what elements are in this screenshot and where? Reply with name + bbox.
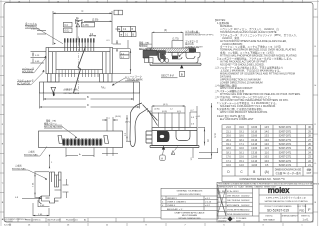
svg-text:(6.1): (6.1) xyxy=(163,104,168,106)
svg-text:12.0: 12.0 xyxy=(264,144,269,146)
svg-text:CHK: TSUNODA: CHK: TSUNODA xyxy=(227,199,241,202)
svg-text:(1.75): (1.75) xyxy=(173,39,179,41)
svg-text:14.16: 14.16 xyxy=(251,144,258,146)
svg-text:(3): (3) xyxy=(164,30,167,32)
svg-text:2002/04/02: 2002/04/02 xyxy=(218,221,227,223)
svg-text:(0.35): (0.35) xyxy=(147,111,152,113)
svg-text:WITHIN DIMENSIONS: WITHIN DIMENSIONS xyxy=(178,218,201,220)
svg-text:DIMENSIONS/PACKAGE: DIMENSIONS/PACKAGE xyxy=(275,169,302,172)
svg-text:「A」: 「A」 xyxy=(100,86,107,90)
svg-text:MUST REMAIN: MUST REMAIN xyxy=(182,214,198,217)
svg-text:EC No: 090901: EC No: 090901 xyxy=(227,191,239,193)
svg-text:± 0.15: ± 0.15 xyxy=(205,202,212,204)
svg-text:52437-2871: 52437-2871 xyxy=(279,136,292,138)
svg-text:19.1: 19.1 xyxy=(239,131,244,133)
svg-text:INSERTION DEPTH OF FPC: INSERTION DEPTH OF FPC xyxy=(185,34,214,36)
svg-text:2002/04/02: 2002/04/02 xyxy=(241,205,250,207)
svg-text:A4: A4 xyxy=(84,219,86,222)
svg-text:52437-2571: 52437-2571 xyxy=(279,148,292,150)
svg-text:CAD FILE 52437: CAD FILE 52437 xyxy=(47,219,61,222)
svg-text:18.6: 18.6 xyxy=(226,148,231,150)
svg-text:C: C xyxy=(82,9,84,13)
svg-text:SEE TABLE: SEE TABLE xyxy=(263,219,275,222)
svg-text:B: B xyxy=(181,73,183,77)
svg-text:52437-2671: 52437-2671 xyxy=(279,144,292,146)
svg-text:DRAFT WHERE APPLICABLE: DRAFT WHERE APPLICABLE xyxy=(175,211,205,214)
svg-text:12.66: 12.66 xyxy=(251,157,258,159)
svg-text:14.5: 14.5 xyxy=(264,127,269,129)
svg-text:CKT: CKT xyxy=(307,173,312,175)
svg-text:14.6: 14.6 xyxy=(239,165,244,167)
svg-text:15.66: 15.66 xyxy=(251,136,258,138)
svg-text:OVER 3 UNDER 6: OVER 3 UNDER 6 xyxy=(167,202,187,204)
svg-text:PRODUCT CUSTOMER DRAWING: PRODUCT CUSTOMER DRAWING xyxy=(265,205,293,208)
svg-text:FORM 013 REV 01: FORM 013 REV 01 xyxy=(25,220,40,222)
svg-text:± 0.1: ± 0.1 xyxy=(205,198,211,200)
svg-text:UNDER 3: UNDER 3 xyxy=(167,198,177,200)
svg-text:18.1: 18.1 xyxy=(226,152,231,154)
svg-text:SD-52437: SD-52437 xyxy=(5,221,13,223)
svg-text:G: G xyxy=(2,105,4,107)
svg-text:1.2: 1.2 xyxy=(170,108,173,110)
svg-text:11.5: 11.5 xyxy=(265,148,270,150)
svg-text:2002/04/02: 2002/04/02 xyxy=(241,200,250,202)
svg-text:17.1: 17.1 xyxy=(239,144,244,146)
svg-text:0.4±0.05: 0.4±0.05 xyxy=(31,29,40,31)
svg-text:M: M xyxy=(315,9,317,11)
svg-text:52437-2471: 52437-2471 xyxy=(279,152,292,154)
svg-text:GENERAL TOLERANCES: GENERAL TOLERANCES xyxy=(177,190,203,193)
svg-text:THIS DRAWING CONTAINS INFORMAT: THIS DRAWING CONTAINS INFORMATION THAT I… xyxy=(218,182,319,185)
svg-text:2002/04/02: 2002/04/02 xyxy=(241,209,250,211)
svg-text:15.6: 15.6 xyxy=(239,157,244,159)
svg-text:19.6: 19.6 xyxy=(239,127,244,129)
svg-text:15.1: 15.1 xyxy=(239,161,244,163)
svg-text:0: 0 xyxy=(196,118,197,120)
svg-text:52437-2271: 52437-2271 xyxy=(279,161,292,163)
svg-text:15.16: 15.16 xyxy=(251,140,258,142)
svg-text:SD-52437-019: SD-52437-019 xyxy=(267,209,289,213)
svg-text:13.0: 13.0 xyxy=(264,140,269,142)
svg-text:20.6: 20.6 xyxy=(226,136,231,138)
svg-text:DOC TYPE: DOC TYPE xyxy=(297,206,307,208)
svg-text:SMT/BK RA/LATCH CONN GOLD PLAT: SMT/BK RA/LATCH CONN GOLD PLATING xyxy=(264,200,307,203)
svg-text:S-T262: S-T262 xyxy=(4,224,12,226)
svg-text:OVER 6: OVER 6 xyxy=(167,205,176,207)
svg-text:APPR: MIAKITA: APPR: MIAKITA xyxy=(227,204,240,207)
svg-text:21.6: 21.6 xyxy=(226,127,231,129)
svg-text:A: A xyxy=(161,156,163,160)
svg-text:52437: 52437 xyxy=(236,221,241,223)
svg-text:molex: molex xyxy=(268,186,290,195)
svg-text:⊕: ⊕ xyxy=(120,34,122,37)
svg-text:11.0: 11.0 xyxy=(265,152,270,154)
svg-text:21.1: 21.1 xyxy=(226,131,231,133)
svg-text:D: D xyxy=(87,104,89,107)
svg-text:18.1: 18.1 xyxy=(239,140,244,142)
svg-text:17.6: 17.6 xyxy=(226,157,231,159)
svg-text:19.1: 19.1 xyxy=(226,144,231,146)
svg-text:(1.05): (1.05) xyxy=(83,25,89,27)
svg-text:13.16: 13.16 xyxy=(251,152,258,154)
svg-text:ANGULAR ± 3 °: ANGULAR ± 3 ° xyxy=(167,208,183,211)
svg-text:14.0: 14.0 xyxy=(264,131,269,133)
svg-text:(UNLESS SPECIFIED): (UNLESS SPECIFIED) xyxy=(178,194,201,196)
svg-text:CONNECTOR SERIES NO. 52437-**: CONNECTOR SERIES NO. 52437-**9 xyxy=(239,177,285,181)
svg-text:(6.2): (6.2) xyxy=(214,133,216,138)
svg-text:± 0.2: ± 0.2 xyxy=(205,205,211,207)
svg-text:2002/04/02: 2002/04/02 xyxy=(241,196,250,198)
svg-text:11.66: 11.66 xyxy=(251,165,257,167)
svg-text:(1): (1) xyxy=(207,139,209,142)
svg-text:52437-2971: 52437-2971 xyxy=(279,131,292,133)
svg-text:CKT No.1 MARK: CKT No.1 MARK xyxy=(64,92,80,95)
svg-text:SHEET No: SHEET No xyxy=(301,216,310,218)
svg-text:DWG No: DWG No xyxy=(265,216,272,218)
svg-text:(30°): (30°) xyxy=(125,122,130,124)
svg-text:(0.95): (0.95) xyxy=(155,108,160,110)
svg-text:1 of 1: 1 of 1 xyxy=(303,219,310,222)
svg-text:52437-3071: 52437-3071 xyxy=(279,127,292,129)
svg-text:ELV AND RoHS COMPLIANT: ELV AND RoHS COMPLIANT xyxy=(220,118,254,121)
svg-text:16.16: 16.16 xyxy=(251,131,258,133)
svg-text:52437-2171: 52437-2171 xyxy=(279,165,292,167)
svg-text:GENERAL MARKET: GENERAL MARKET xyxy=(281,215,298,218)
svg-text:13.5: 13.5 xyxy=(264,136,269,138)
svg-text:52437-2371: 52437-2371 xyxy=(279,157,292,159)
svg-text:(2.59): (2.59) xyxy=(92,18,98,21)
svg-text:10.0: 10.0 xyxy=(264,161,269,163)
svg-text:INITIAL RELEASE: INITIAL RELEASE xyxy=(227,213,242,216)
svg-text:PS-52437-001: PS-52437-001 xyxy=(66,220,78,222)
svg-text:12.16: 12.16 xyxy=(251,161,258,163)
svg-text:(A): (A) xyxy=(265,170,269,174)
svg-text:16.6: 16.6 xyxy=(239,148,244,150)
svg-text:(0.1): (0.1) xyxy=(65,31,70,33)
svg-text:16.66: 16.66 xyxy=(251,127,258,129)
svg-text:16.1: 16.1 xyxy=(239,152,244,154)
svg-text:(3.05): (3.05) xyxy=(115,116,121,118)
svg-text:B: B xyxy=(253,170,255,174)
svg-text:(0.5): (0.5) xyxy=(177,111,181,113)
svg-text:18.6: 18.6 xyxy=(239,136,244,138)
svg-text:PSD: PSD xyxy=(299,210,304,213)
svg-text:SECT ♯-♯: SECT ♯-♯ xyxy=(161,74,174,78)
svg-text:DWN: MSUZUKI: DWN: MSUZUKI xyxy=(227,196,240,198)
svg-text:13.66: 13.66 xyxy=(251,148,258,150)
svg-text:(0.05): (0.05) xyxy=(162,111,167,113)
svg-text:APPLY FOR PRODUCT SPECIFICATIO: APPLY FOR PRODUCT SPECIFICATION. xyxy=(220,111,268,114)
svg-text:16.6: 16.6 xyxy=(226,165,231,167)
svg-text:2002/04/02: 2002/04/02 xyxy=(241,214,250,216)
svg-text:J: J xyxy=(2,66,3,68)
svg-text:10.5: 10.5 xyxy=(264,157,269,159)
svg-text:17.1: 17.1 xyxy=(226,161,231,163)
svg-text:52437-2771: 52437-2771 xyxy=(279,140,292,142)
svg-text:20.1: 20.1 xyxy=(226,140,231,142)
